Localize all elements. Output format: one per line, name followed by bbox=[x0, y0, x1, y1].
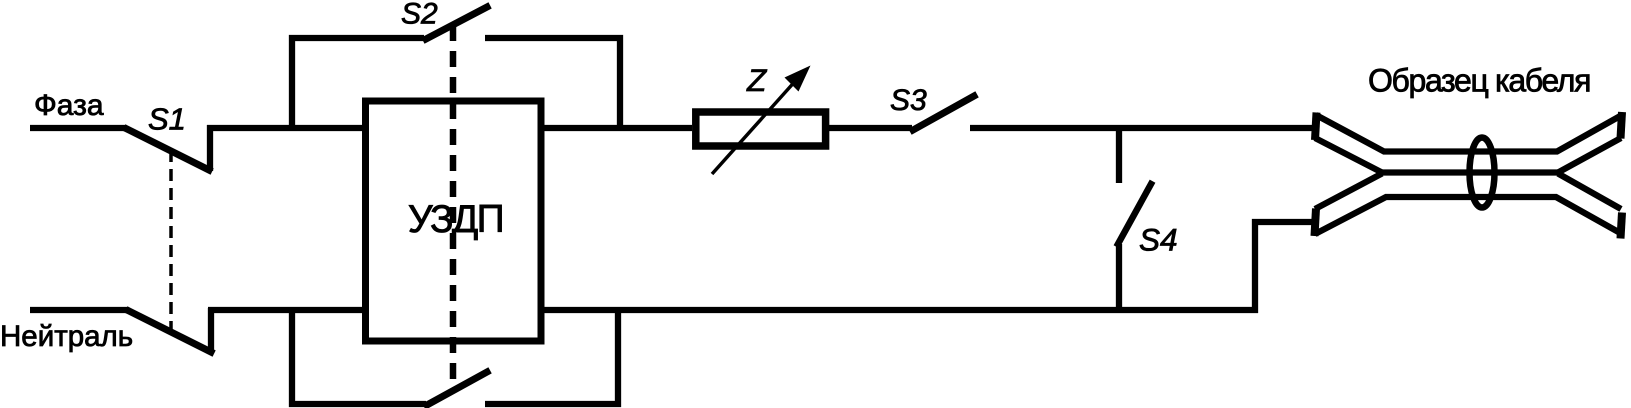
svg-text:Образец кабеля: Образец кабеля bbox=[1368, 63, 1590, 99]
switch S1 pole B blade bbox=[129, 311, 211, 352]
cable sample: conductor bottom edge bbox=[1315, 197, 1622, 234]
switch S1 pole A blade bbox=[127, 129, 209, 170]
svg-text:S1: S1 bbox=[148, 102, 186, 137]
switch S4 blade bbox=[1118, 184, 1151, 244]
cable sample: upper-right conductor end cap bbox=[1621, 112, 1623, 139]
impedance Z body bbox=[696, 112, 826, 146]
switch S4 upper lead bbox=[1116, 128, 1122, 183]
wire Z to S3 bbox=[829, 125, 912, 131]
switch S2 pole A blade bbox=[426, 7, 487, 39]
wire bottom bypass left bbox=[292, 310, 426, 404]
wire neutral step up to cable sample bbox=[1255, 222, 1313, 313]
cable sample: upper conductor lower-right diagonal bbox=[1558, 138, 1621, 173]
cable sample: conductor middle shared edge bbox=[1378, 169, 1561, 175]
wire neutral rail UZDP to step bbox=[541, 307, 1258, 313]
switch S4 lower lead bbox=[1116, 244, 1122, 313]
cable sample: lower-left conductor end cap bbox=[1315, 209, 1317, 237]
cable sample: upper-left conductor end cap bbox=[1315, 113, 1317, 141]
switch S1 gang link (dashed) bbox=[169, 150, 173, 332]
switch S1 pole B post bbox=[208, 308, 214, 353]
svg-text:Z: Z bbox=[746, 62, 768, 98]
wire bottom bypass right bbox=[485, 310, 618, 404]
switch S3 blade bbox=[913, 96, 974, 130]
wire top bypass right bbox=[485, 38, 620, 128]
wire phase UZDP to Z bbox=[541, 125, 692, 131]
device box UZDP (AFDD under test) bbox=[366, 101, 542, 341]
cable sample: lower conductor upper-right diagonal bbox=[1558, 174, 1621, 210]
switch S1 pole A post bbox=[207, 125, 213, 171]
wire phase to UZDP bbox=[207, 125, 365, 131]
cable sample: twist ellipse bbox=[1470, 138, 1495, 208]
wire neutral input bbox=[30, 307, 128, 313]
svg-text:S3: S3 bbox=[890, 84, 927, 117]
gang link dashed line through UZDP (S2 two-pole) bbox=[450, 25, 457, 390]
svg-text:Фаза: Фаза bbox=[34, 89, 104, 122]
cable sample: upper conductor lower-left diagonal bbox=[1315, 138, 1382, 173]
wire S3 to cable sample (phase) bbox=[970, 125, 1313, 131]
cable sample: lower-right conductor end cap bbox=[1621, 213, 1623, 239]
wire neutral to UZDP bbox=[208, 307, 365, 313]
switch S2 pole B blade bbox=[427, 372, 487, 405]
wire phase input bbox=[30, 125, 126, 131]
svg-text:УЗДП: УЗДП bbox=[408, 198, 503, 241]
svg-text:Нейтраль: Нейтраль bbox=[0, 320, 133, 353]
svg-text:S2: S2 bbox=[401, 0, 438, 31]
wire top bypass left bbox=[292, 38, 424, 128]
cable sample: conductor top edge bbox=[1316, 115, 1622, 152]
impedance Z variability arrow bbox=[712, 78, 798, 174]
cable sample: lower conductor upper-left diagonal bbox=[1315, 174, 1382, 210]
svg-text:S4: S4 bbox=[1139, 222, 1178, 258]
